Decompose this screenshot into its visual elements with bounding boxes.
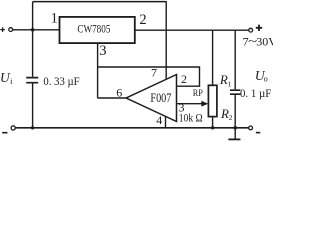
svg-text:R: R bbox=[219, 72, 228, 87]
svg-text:0. 33 µF: 0. 33 µF bbox=[43, 74, 79, 88]
svg-text:o: o bbox=[264, 74, 268, 83]
svg-text:2: 2 bbox=[181, 72, 187, 86]
svg-text:2: 2 bbox=[139, 12, 146, 28]
svg-text:F007: F007 bbox=[150, 91, 171, 105]
svg-text:0. 1 µF: 0. 1 µF bbox=[240, 86, 272, 100]
svg-text:7: 7 bbox=[151, 66, 157, 80]
svg-text:1: 1 bbox=[51, 10, 58, 26]
svg-text:2: 2 bbox=[229, 113, 233, 122]
svg-text:RP: RP bbox=[193, 89, 203, 99]
svg-text:4: 4 bbox=[156, 113, 162, 127]
svg-text:3: 3 bbox=[99, 43, 106, 59]
svg-text:6: 6 bbox=[116, 85, 122, 99]
svg-text:CW7805: CW7805 bbox=[77, 21, 110, 35]
svg-text:10k Ω: 10k Ω bbox=[179, 110, 203, 124]
svg-text:30V: 30V bbox=[256, 35, 273, 49]
svg-text:i: i bbox=[10, 77, 13, 86]
svg-text:1: 1 bbox=[228, 79, 232, 88]
